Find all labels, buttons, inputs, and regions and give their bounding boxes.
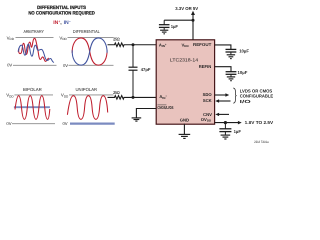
IC U1 LTC2318-14 body — [156, 40, 214, 124]
capacitor 47pF between inputs — [129, 45, 138, 98]
wire OVDD supply with arrow to 1.8V TO 2.5V — [215, 122, 239, 124]
svg-text:2318 TA01a: 2318 TA01a — [254, 140, 269, 144]
svg-text:OVDD: OVDD — [201, 117, 212, 123]
wire SCK input arrow — [218, 100, 231, 102]
plot DIFFERENTIAL red waveform IN+ — [72, 38, 107, 65]
wire CMOS/LVDS pin to ground — [136, 109, 156, 118]
plot BIPOLAR VDD rail line — [14, 94, 53, 96]
svg-text:ARBITRARY: ARBITRARY — [23, 29, 44, 34]
plot BIPOLAR blue common-mode line — [14, 106, 50, 108]
plot DIFFERENTIAL VDD rail line — [68, 37, 114, 39]
svg-text:CONFIGURABLE: CONFIGURABLE — [240, 94, 274, 99]
ground (VDD bypass cap) — [160, 30, 168, 34]
wire SDO output arrow — [215, 94, 227, 96]
ground (CMOS/LVDS pin) — [132, 118, 142, 121]
svg-text:25Ω: 25Ω — [113, 37, 120, 42]
plot ARBITRARY red waveform IN+ — [19, 38, 49, 61]
plot ARBITRARY VDD rail line — [16, 37, 54, 39]
svg-text:1µF: 1µF — [234, 129, 242, 134]
ground (REFIN cap) — [227, 77, 235, 81]
power rail VDD wire with up arrow — [192, 14, 194, 40]
node junction dot top input — [132, 43, 135, 46]
capacitor 1uF (VDD bypass) — [159, 20, 170, 30]
node junction dot on OVDD — [224, 121, 227, 124]
svg-text:REFIN: REFIN — [199, 64, 212, 69]
node junction dot on VDD rail — [192, 19, 195, 22]
svg-text:0V: 0V — [7, 63, 12, 68]
resistor 25Ω bottom body and leads — [108, 96, 134, 100]
svg-text:SCK: SCK — [203, 98, 212, 103]
svg-text:UNIPOLAR: UNIPOLAR — [76, 87, 98, 92]
node junction dot bottom input — [132, 96, 135, 99]
plot ARBITRARY 0V rail line — [13, 64, 57, 66]
svg-text:3.3V OR 5V: 3.3V OR 5V — [175, 6, 198, 11]
svg-text:GND: GND — [180, 117, 189, 122]
wire REFIN to decoupling cap — [215, 67, 231, 72]
plot BIPOLAR 0V rail line — [12, 123, 55, 125]
svg-text:REFOUT: REFOUT — [193, 42, 212, 47]
svg-text:0V: 0V — [6, 121, 11, 126]
svg-text:VDD: VDD — [7, 35, 15, 41]
svg-text:10µF: 10µF — [238, 70, 248, 75]
brace for LVDS/CMOS configurable IO — [233, 88, 236, 103]
svg-text:DIFFERENTIAL: DIFFERENTIAL — [73, 29, 100, 34]
svg-text:VDD: VDD — [6, 93, 14, 99]
svg-text:LVDS OR CMOS: LVDS OR CMOS — [240, 88, 273, 93]
ground (GND pin) — [179, 134, 191, 138]
plot UNIPOLAR red sine waveform — [67, 96, 107, 120]
svg-text:SDO: SDO — [203, 92, 213, 97]
wire CNV input arrow — [218, 113, 229, 115]
svg-text:0V: 0V — [63, 63, 68, 68]
svg-text:25Ω: 25Ω — [113, 90, 120, 95]
svg-text:NO CONFIGURATION REQUIRED: NO CONFIGURATION REQUIRED — [28, 10, 95, 16]
plot BIPOLAR red sine waveform — [15, 96, 50, 120]
wire 25Ω top to AIN+ pin — [133, 44, 156, 46]
svg-text:47pF: 47pF — [141, 67, 151, 72]
svg-text:10µF: 10µF — [239, 48, 249, 53]
plot DIFFERENTIAL 0V rail line — [69, 64, 114, 66]
wire GND pin to ground — [183, 124, 185, 134]
svg-text:VDD: VDD — [182, 42, 190, 48]
resistor 25Ω top body and leads — [108, 43, 134, 47]
svg-text:LTC2318-14: LTC2318-14 — [170, 57, 199, 62]
svg-text:VDD: VDD — [61, 93, 69, 99]
ground (OVDD cap) — [221, 135, 231, 139]
svg-text:1.8V TO 2.5V: 1.8V TO 2.5V — [245, 120, 274, 125]
wire VDD rail to bypass cap — [164, 19, 193, 21]
plot DIFFERENTIAL blue waveform IN- — [72, 38, 107, 65]
plot UNIPOLAR blue 0V thick line — [70, 122, 115, 124]
ground (REFOUT cap) — [227, 55, 235, 59]
svg-text:BIPOLAR: BIPOLAR — [23, 87, 42, 92]
plot UNIPOLAR VDD rail line — [69, 94, 114, 96]
svg-text:I/O: I/O — [240, 99, 252, 104]
svg-text:VDD: VDD — [59, 35, 67, 41]
capacitor 1uF (OVDD bypass) — [219, 123, 231, 135]
wire REFOUT to decoupling cap — [215, 45, 231, 49]
capacitor 10uF (REFIN) — [226, 72, 237, 77]
svg-text:1µF: 1µF — [171, 24, 179, 29]
capacitor 10uF (REFOUT) — [226, 49, 237, 54]
wire 25Ω bottom to AIN- pin — [133, 96, 156, 98]
svg-text:0V: 0V — [62, 121, 67, 126]
plot ARBITRARY blue waveform IN- — [18, 44, 53, 62]
svg-text:IN+,IN−: IN+,IN− — [53, 20, 70, 26]
svg-text:DIFFERENTIAL INPUTS: DIFFERENTIAL INPUTS — [37, 5, 87, 11]
svg-text:CMOS/LVDS: CMOS/LVDS — [157, 105, 173, 110]
